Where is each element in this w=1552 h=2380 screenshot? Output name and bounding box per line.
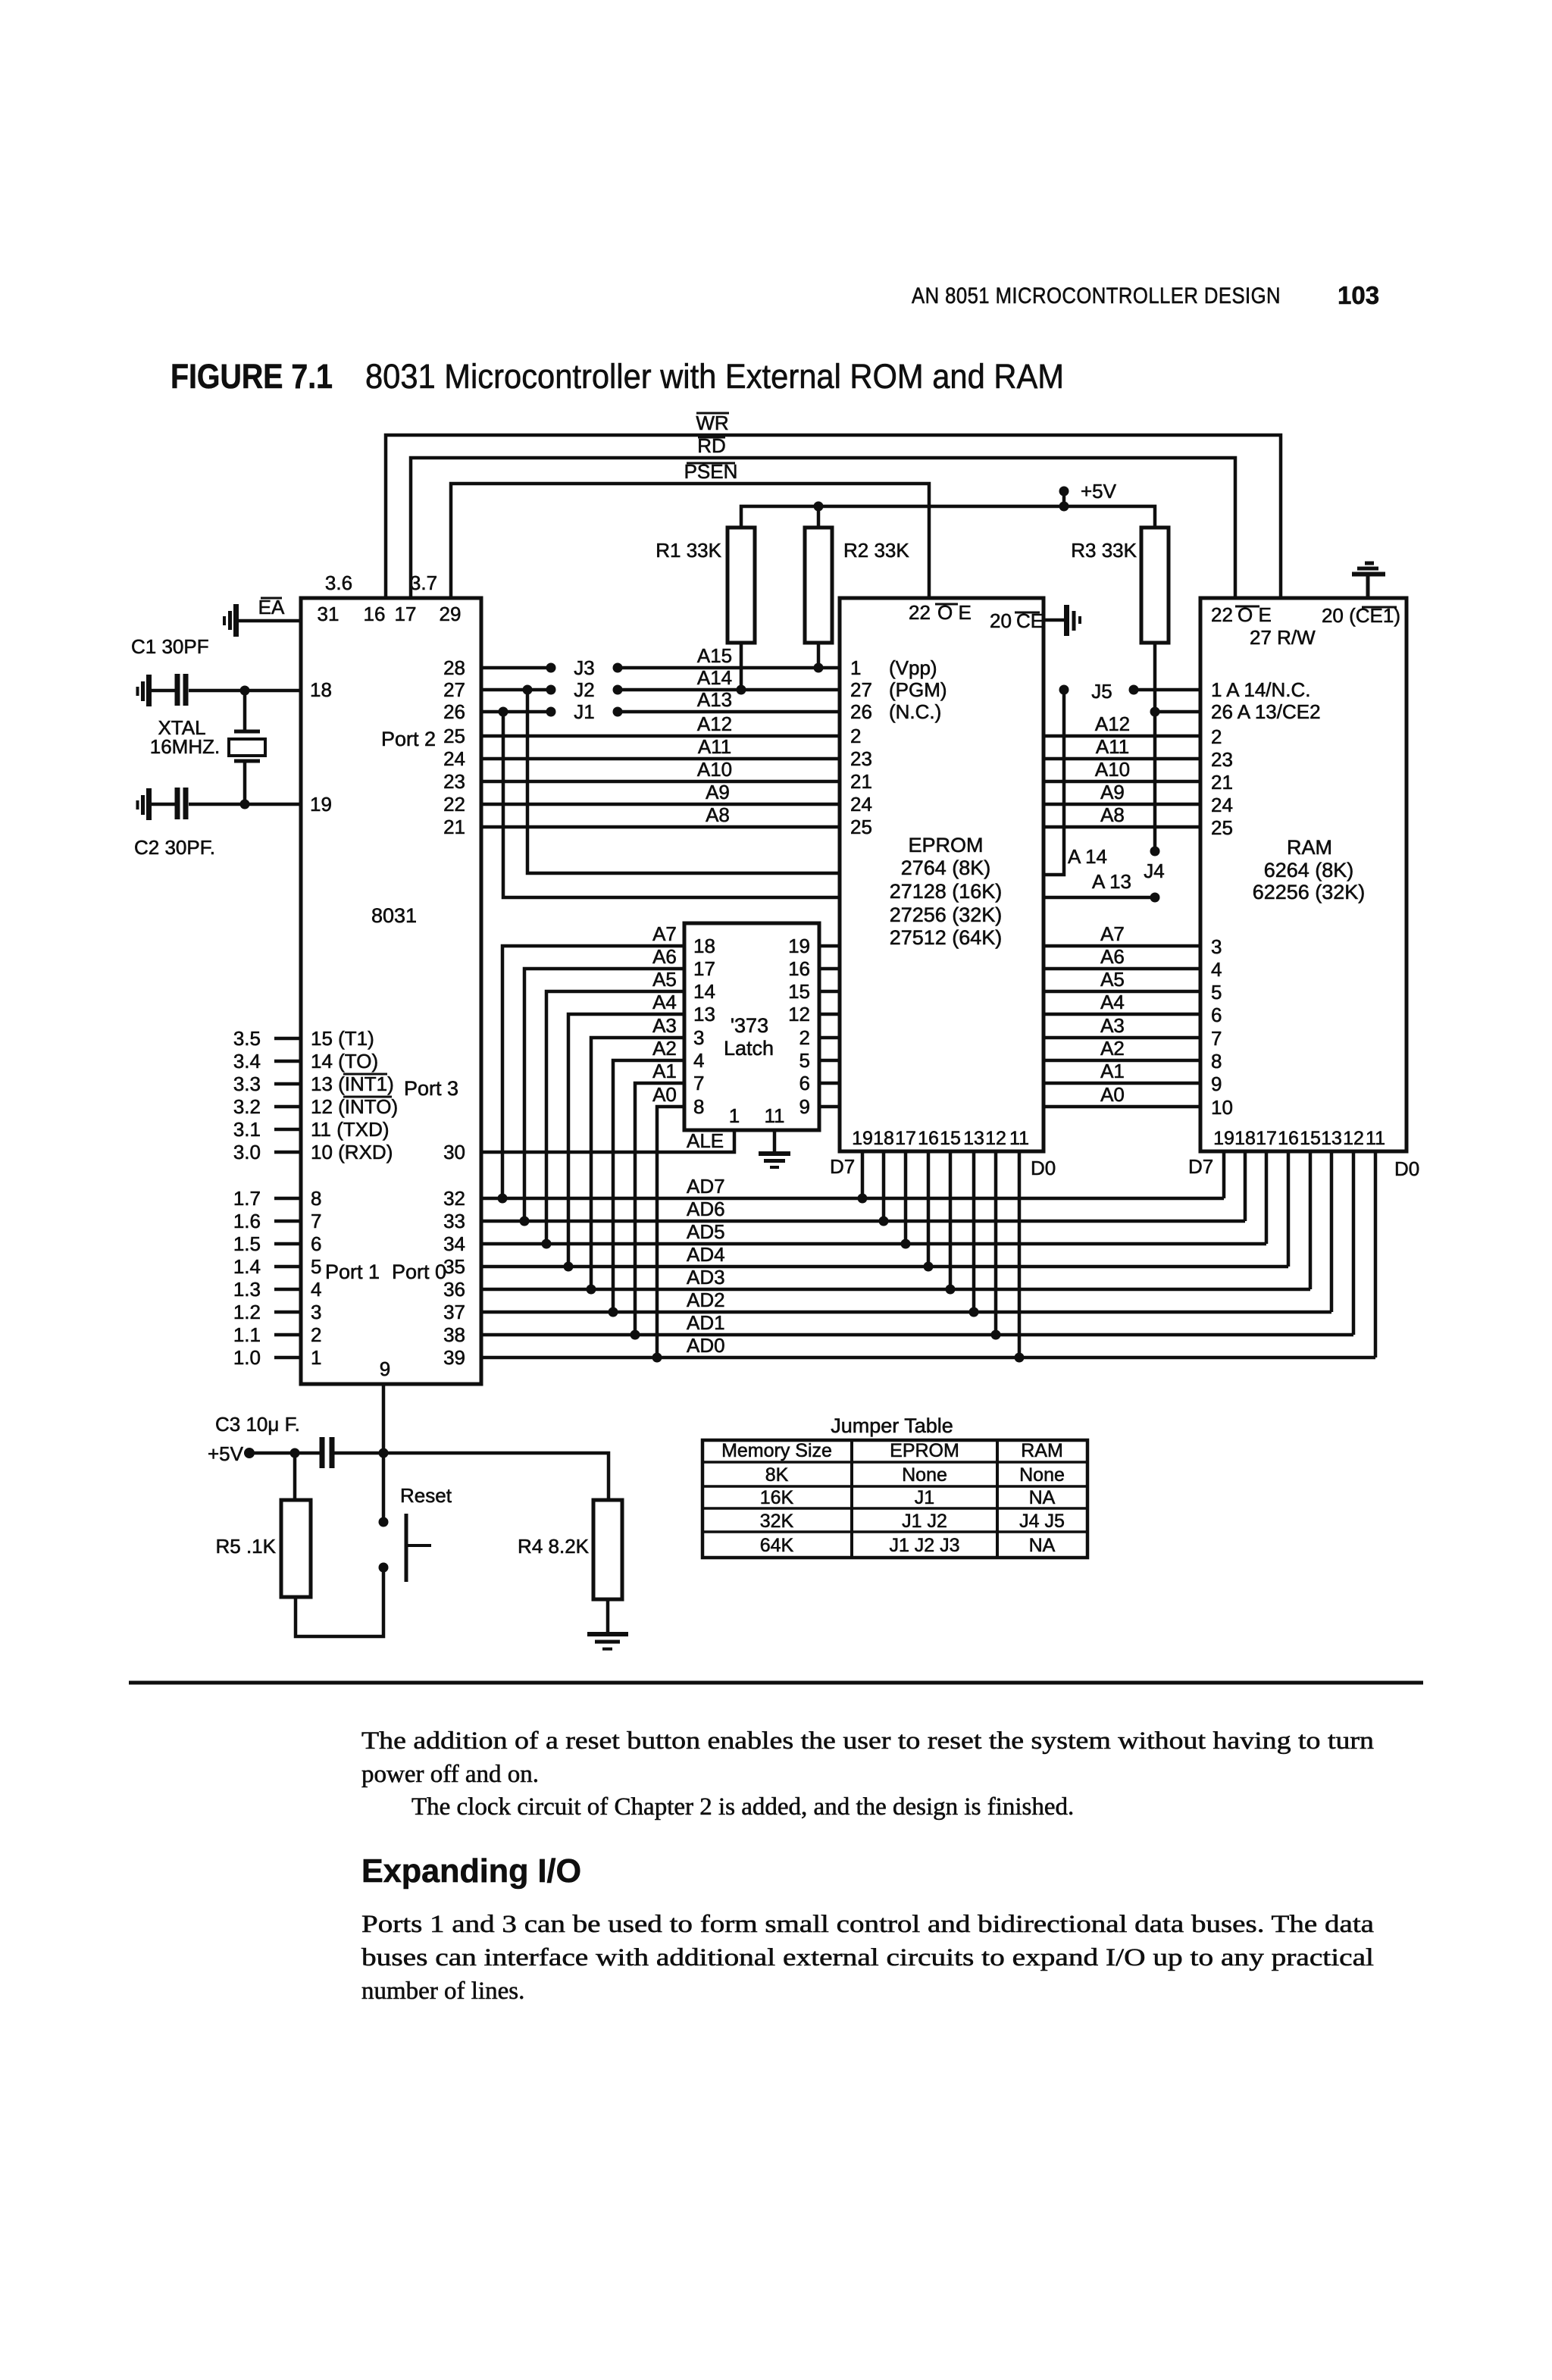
- svg-text:NA: NA: [1029, 1535, 1056, 1556]
- svg-text:25: 25: [850, 816, 872, 838]
- 8031 pin18 pin19 labels: [310, 678, 332, 816]
- wire AD3 bus line: [481, 1266, 1310, 1289]
- svg-text:D0: D0: [1031, 1157, 1056, 1179]
- wire latch input A6 to AD bus: [520, 945, 685, 1226]
- svg-text:Port 1: Port 1: [325, 1260, 380, 1283]
- svg-text:9: 9: [380, 1358, 390, 1380]
- EPROM bottom pin numbers: [852, 1128, 1029, 1149]
- wire latch input A5 to AD bus: [542, 968, 685, 1249]
- wire latch input A7 to AD bus: [498, 922, 685, 1204]
- wire RAM data pin 17 to AD bus: [1265, 1151, 1269, 1244]
- svg-text:26: 26: [443, 700, 465, 723]
- svg-text:35: 35: [443, 1255, 465, 1278]
- wire port3 pin stub 3.2: [233, 1095, 398, 1118]
- svg-text:39: 39: [443, 1346, 465, 1369]
- svg-text:22: 22: [909, 601, 931, 624]
- svg-text:23: 23: [1211, 748, 1233, 771]
- wire A12 row EPROM to RAM: [1044, 712, 1200, 736]
- svg-text:3.3: 3.3: [233, 1073, 261, 1095]
- capacitor C2 30PF: [134, 788, 215, 859]
- EPROM pin 22 OE label: [909, 601, 972, 624]
- svg-text:(Vpp): (Vpp): [889, 656, 937, 679]
- svg-text:AN 8051 MICROCONTROLLER DESIGN: AN 8051 MICROCONTROLLER DESIGN: [912, 283, 1281, 308]
- wire A8 row EPROM to RAM: [1044, 803, 1200, 827]
- ground symbol at RAM CE1: [1352, 563, 1385, 598]
- wire ALE net: [481, 1129, 734, 1152]
- svg-text:6264 (8K): 6264 (8K): [1264, 859, 1354, 882]
- svg-text:8K: 8K: [765, 1464, 789, 1486]
- svg-text:17: 17: [895, 1128, 916, 1149]
- svg-text:A0: A0: [652, 1083, 677, 1106]
- wire A12 row 8031 to EPROM: [481, 734, 840, 738]
- svg-text:11: 11: [1366, 1128, 1385, 1149]
- svg-text:Ports 1 and 3 can be used to f: Ports 1 and 3 can be used to form small …: [361, 1911, 1374, 1938]
- svg-text:8031: 8031: [371, 904, 417, 927]
- svg-text:21: 21: [1211, 771, 1233, 794]
- svg-text:5: 5: [311, 1255, 321, 1278]
- svg-text:64K: 64K: [760, 1535, 794, 1556]
- svg-text:26 A 13/CE2: 26 A 13/CE2: [1211, 700, 1321, 723]
- svg-text:1: 1: [850, 656, 861, 679]
- ground symbol at C1: [138, 675, 149, 706]
- svg-text:3.7: 3.7: [410, 572, 437, 594]
- crystal XTAL 16MHZ: [150, 691, 265, 804]
- svg-text:7: 7: [311, 1210, 321, 1232]
- node +5V: [1059, 480, 1117, 512]
- svg-text:Jumper Table: Jumper Table: [831, 1414, 953, 1437]
- svg-text:NA: NA: [1029, 1487, 1056, 1508]
- svg-text:A 14: A 14: [1068, 845, 1107, 868]
- svg-text:AD6: AD6: [687, 1198, 725, 1220]
- svg-text:15: 15: [940, 1128, 961, 1149]
- wire C1 to 8031 pin18: [189, 686, 301, 696]
- svg-text:18: 18: [873, 1128, 894, 1149]
- svg-text:AD5: AD5: [687, 1220, 725, 1243]
- svg-text:10 (RXD): 10 (RXD): [311, 1141, 393, 1163]
- wire A10 row EPROM to RAM: [1044, 758, 1200, 781]
- wire latch input A1 to AD bus: [630, 1060, 685, 1340]
- wire WR net (8031 pin16 to RAM R/W): [386, 412, 1281, 598]
- wire +5V pullup rail: [741, 502, 1155, 528]
- page header: [912, 281, 1379, 309]
- svg-text:38: 38: [443, 1323, 465, 1346]
- wire A15 row with jumper J3: [481, 656, 840, 679]
- svg-text:7: 7: [1211, 1027, 1222, 1050]
- svg-text:23: 23: [850, 747, 872, 770]
- wire EA to 8031: [239, 619, 301, 623]
- capacitor C1 30PF: [131, 635, 209, 706]
- wire A14 row with jumper J2: [481, 678, 840, 701]
- svg-text:None: None: [1019, 1464, 1065, 1486]
- svg-text:25: 25: [1211, 816, 1233, 839]
- svg-text:3.2: 3.2: [233, 1095, 261, 1118]
- svg-text:12: 12: [1343, 1128, 1364, 1149]
- svg-text:18: 18: [693, 935, 715, 957]
- ground symbol at R4: [587, 1634, 628, 1649]
- svg-text:14 (TO): 14 (TO): [311, 1050, 378, 1073]
- horizontal rule: [129, 1681, 1423, 1685]
- 8031 internal labels: [325, 728, 458, 1283]
- wire latch output stub: [819, 1013, 840, 1016]
- svg-text:27512 (64K): 27512 (64K): [890, 926, 1003, 949]
- ground symbol at latch pin11: [759, 1130, 790, 1167]
- svg-text:17: 17: [395, 603, 417, 625]
- svg-text:+5V: +5V: [208, 1442, 244, 1465]
- svg-text:A15: A15: [697, 644, 732, 667]
- svg-text:A6: A6: [652, 945, 677, 968]
- svg-text:AD3: AD3: [687, 1266, 725, 1289]
- wire R4 to ground: [606, 1599, 610, 1633]
- svg-text:A12: A12: [697, 712, 732, 735]
- heading Expanding I/O: [361, 1852, 581, 1890]
- address labels A15-A8: [697, 644, 732, 826]
- wire A8 row 8031 to EPROM: [481, 825, 840, 829]
- svg-text:12 (INTO): 12 (INTO): [311, 1095, 398, 1118]
- svg-text:A9: A9: [1100, 781, 1125, 803]
- wire R5 bottom to switch: [296, 1567, 383, 1636]
- svg-text:J3: J3: [574, 656, 594, 679]
- wire latch input A0 to AD bus: [652, 1083, 685, 1363]
- wire EPROM data pin 16 to AD bus: [924, 1151, 934, 1272]
- body paragraph 2: [361, 1911, 1374, 2005]
- wire A6 row EPROM to RAM: [1044, 945, 1200, 969]
- wire latch output stub: [819, 967, 840, 971]
- wire EPROM data pin 15 to AD bus: [946, 1151, 956, 1295]
- svg-text:26: 26: [850, 700, 872, 723]
- wire RAM data pin 19 to AD bus: [1222, 1151, 1226, 1198]
- wire A3 row EPROM to RAM: [1044, 1014, 1200, 1038]
- svg-text:J1: J1: [574, 700, 594, 723]
- svg-text:A8: A8: [706, 803, 730, 826]
- node D7 label RAM: [1188, 1155, 1213, 1178]
- svg-text:A0: A0: [1100, 1083, 1125, 1106]
- wire AD4 bus line: [481, 1243, 1288, 1267]
- svg-text:2: 2: [850, 725, 861, 747]
- svg-text:R2 33K: R2 33K: [843, 539, 909, 562]
- wire latch output stub: [819, 944, 840, 948]
- svg-text:Latch: Latch: [724, 1037, 774, 1060]
- wire port1 pin stub 1.6: [233, 1210, 322, 1232]
- svg-text:Memory Size: Memory Size: [721, 1440, 832, 1461]
- wire C3 to R4: [334, 1453, 609, 1500]
- svg-text:27256 (32K): 27256 (32K): [890, 903, 1003, 926]
- wire PSEN net (8031 pin29 to EPROM OE): [451, 460, 929, 598]
- svg-text:D7: D7: [830, 1155, 855, 1178]
- wire A13 row with jumper J1: [481, 700, 840, 723]
- resistor R4 8.2K: [518, 1500, 622, 1599]
- latch pin numbers: [693, 935, 810, 1127]
- svg-text:27128 (16K): 27128 (16K): [890, 880, 1003, 903]
- svg-text:3.0: 3.0: [233, 1141, 261, 1163]
- svg-text:24: 24: [443, 747, 465, 770]
- svg-text:12: 12: [788, 1003, 810, 1026]
- svg-text:A11: A11: [1096, 735, 1129, 758]
- svg-text:4: 4: [693, 1049, 704, 1072]
- svg-text:1.7: 1.7: [233, 1187, 261, 1210]
- svg-text:1.0: 1.0: [233, 1346, 261, 1369]
- wire A5 row EPROM to RAM: [1044, 968, 1200, 991]
- svg-text:EPROM: EPROM: [908, 834, 983, 856]
- wire port1 pin stub 1.5: [233, 1232, 322, 1255]
- svg-text:24: 24: [1211, 794, 1233, 816]
- svg-text:18: 18: [1234, 1128, 1256, 1149]
- svg-text:16: 16: [364, 603, 386, 625]
- svg-text:A13: A13: [697, 688, 732, 711]
- ground symbol at EA: [224, 604, 236, 637]
- svg-text:17: 17: [693, 957, 715, 980]
- svg-text:A10: A10: [697, 758, 732, 781]
- wire port1 pin stub 1.0: [233, 1346, 322, 1369]
- jumper J5 to RAM pin1: [1091, 680, 1200, 703]
- svg-text:4: 4: [311, 1278, 321, 1301]
- wire latch input A3 to AD bus: [587, 1014, 685, 1295]
- svg-text:AD1: AD1: [687, 1311, 725, 1334]
- wire RD net (8031 pin17 to RAM OE): [411, 434, 1235, 598]
- wire latch input A4 to AD bus: [564, 991, 685, 1272]
- svg-text:10: 10: [1211, 1096, 1233, 1119]
- svg-text:36: 36: [443, 1278, 465, 1301]
- svg-text:'373: '373: [731, 1014, 768, 1037]
- node D0 label EPROM: [1031, 1157, 1056, 1179]
- svg-text:16MHZ.: 16MHZ.: [150, 735, 220, 758]
- wire EPROM data pin 13 to AD bus: [969, 1151, 979, 1317]
- wire RAM data pin 18 to AD bus: [1244, 1151, 1247, 1221]
- svg-text:A1: A1: [1100, 1060, 1125, 1082]
- latch U4 '373: [684, 923, 819, 1130]
- microcontroller U1 8031: [301, 598, 481, 1384]
- svg-text:A9: A9: [706, 781, 730, 803]
- wire A4 row EPROM to RAM: [1044, 991, 1200, 1014]
- svg-text:6: 6: [799, 1072, 810, 1094]
- svg-text:R1 33K: R1 33K: [656, 539, 721, 562]
- svg-text:3.5: 3.5: [233, 1027, 261, 1050]
- ground symbol at C2: [138, 788, 149, 820]
- EPROM internal labels: [890, 834, 1003, 949]
- svg-text:8031 Microcontroller with Exte: 8031 Microcontroller with External ROM a…: [365, 357, 1064, 396]
- EPROM pin 20 CE label: [990, 609, 1044, 632]
- svg-text:3.6: 3.6: [325, 572, 352, 594]
- RAM left pin numbers: [1211, 678, 1321, 1119]
- wire RAM data pin 11 to AD bus: [1374, 1151, 1378, 1358]
- EPROM U2: [840, 598, 1044, 1151]
- wire AD1 bus line: [481, 1311, 1353, 1335]
- wire A1 row EPROM to RAM: [1044, 1060, 1200, 1083]
- svg-text:J1 J2: J1 J2: [902, 1511, 947, 1532]
- svg-text:A4: A4: [652, 991, 677, 1013]
- svg-text:1.5: 1.5: [233, 1232, 261, 1255]
- svg-text:A5: A5: [1100, 968, 1125, 991]
- svg-text:19: 19: [1213, 1128, 1234, 1149]
- wire port1 pin stub 1.2: [233, 1301, 322, 1323]
- svg-text:J4 J5: J4 J5: [1019, 1511, 1065, 1532]
- svg-text:34: 34: [443, 1232, 465, 1255]
- ground symbol at EPROM CE: [1067, 605, 1081, 636]
- svg-text:16: 16: [918, 1128, 939, 1149]
- svg-text:37: 37: [443, 1301, 465, 1323]
- wire port3 pin stub 3.4: [233, 1050, 378, 1073]
- wire J2 branch to EPROM A14 route: [527, 690, 840, 873]
- svg-text:A3: A3: [652, 1014, 677, 1037]
- svg-text:J1: J1: [915, 1487, 934, 1508]
- svg-text:9: 9: [799, 1095, 810, 1118]
- svg-text:19: 19: [852, 1128, 873, 1149]
- svg-text:27: 27: [443, 678, 465, 701]
- wire port3 pin stub 3.0: [233, 1141, 393, 1163]
- svg-text:WR: WR: [696, 412, 728, 434]
- wire EPROM data pin 19 to AD bus: [858, 1151, 868, 1204]
- wire port1 pin stub 1.1: [233, 1323, 322, 1346]
- svg-text:AD4: AD4: [687, 1243, 725, 1266]
- wire AD6 bus line: [481, 1198, 1245, 1221]
- node D7 label EPROM: [830, 1155, 855, 1178]
- svg-text:19: 19: [788, 935, 810, 957]
- wire latch output stub: [819, 990, 840, 994]
- node +5V reset: [208, 1442, 321, 1465]
- svg-text:A14: A14: [697, 666, 732, 689]
- svg-text:4: 4: [1211, 958, 1222, 981]
- svg-text:The addition of a reset button: The addition of a reset button enables t…: [361, 1727, 1374, 1755]
- svg-text:21: 21: [443, 816, 465, 838]
- resistor R1 33K: [656, 528, 755, 695]
- jumper table: [702, 1414, 1087, 1558]
- svg-text:AD7: AD7: [687, 1175, 725, 1198]
- RAM bottom pin numbers: [1213, 1128, 1385, 1149]
- svg-text:1.6: 1.6: [233, 1210, 261, 1232]
- wire A11 row 8031 to EPROM: [481, 757, 840, 761]
- svg-text:3.4: 3.4: [233, 1050, 261, 1073]
- svg-text:13: 13: [963, 1128, 984, 1149]
- svg-text:J2: J2: [574, 678, 594, 701]
- svg-text:22: 22: [443, 793, 465, 816]
- svg-text:A11: A11: [698, 735, 731, 758]
- RAM internal labels: [1253, 836, 1366, 903]
- wire A14 route EPROM to jumper J5: [1044, 685, 1107, 875]
- svg-text:13 (INT1): 13 (INT1): [311, 1073, 394, 1095]
- wire port3 pin stub 3.5: [233, 1027, 374, 1050]
- wire A13 route EPROM to jumper J4: [1044, 870, 1160, 903]
- svg-text:8: 8: [311, 1187, 321, 1210]
- svg-text:A10: A10: [1095, 758, 1130, 781]
- wire RAM data pin 12 to AD bus: [1352, 1151, 1356, 1335]
- switch SW reset: [379, 1484, 452, 1582]
- wire RAM data pin 13 to AD bus: [1330, 1151, 1334, 1312]
- wire AD2 bus line: [481, 1289, 1331, 1312]
- svg-text:AD2: AD2: [687, 1289, 725, 1311]
- svg-text:16K: 16K: [760, 1487, 794, 1508]
- svg-text:1: 1: [729, 1104, 740, 1127]
- resistor R3 33K: [1071, 528, 1169, 851]
- svg-text:3: 3: [1211, 935, 1222, 958]
- svg-text:14: 14: [693, 980, 715, 1003]
- svg-text:A8: A8: [1100, 803, 1125, 826]
- svg-text:5: 5: [1211, 981, 1222, 1004]
- svg-text:13: 13: [1321, 1128, 1342, 1149]
- svg-text:8: 8: [1211, 1050, 1222, 1073]
- wire EPROM data pin 18 to AD bus: [879, 1151, 889, 1226]
- svg-text:13: 13: [693, 1003, 715, 1026]
- resistor R2 33K: [805, 528, 909, 673]
- svg-text:RAM: RAM: [1287, 836, 1332, 859]
- svg-text:(PGM): (PGM): [889, 678, 947, 701]
- wire latch output stub: [819, 1105, 840, 1109]
- svg-text:1 A 14/N.C.: 1 A 14/N.C.: [1211, 678, 1311, 701]
- EPROM left pin numbers: [850, 656, 947, 838]
- svg-text:31: 31: [318, 603, 339, 625]
- wire AD0 bus line: [481, 1334, 1375, 1358]
- wire EPROM data pin 17 to AD bus: [901, 1151, 911, 1249]
- svg-text:32: 32: [443, 1187, 465, 1210]
- jumper J4: [1144, 847, 1164, 883]
- svg-text:Port 3: Port 3: [404, 1077, 458, 1100]
- 8031 right pin numbers: [380, 656, 465, 1380]
- wire port1 pin stub 1.7: [233, 1187, 322, 1210]
- svg-text:A2: A2: [652, 1037, 677, 1060]
- svg-text:2: 2: [311, 1323, 321, 1346]
- svg-text:(N.C.): (N.C.): [889, 700, 941, 723]
- node D0 label RAM: [1394, 1157, 1419, 1180]
- resistor R5 1K: [216, 1453, 311, 1597]
- svg-text:62256 (32K): 62256 (32K): [1253, 881, 1366, 903]
- svg-text:16: 16: [1278, 1128, 1299, 1149]
- RAM pin 22 OE label: [1211, 603, 1272, 626]
- wire latch output stub: [819, 1036, 840, 1040]
- RAM U3: [1200, 598, 1406, 1151]
- svg-text:24: 24: [850, 793, 872, 816]
- svg-text:9: 9: [1211, 1073, 1222, 1095]
- svg-text:8: 8: [693, 1095, 704, 1118]
- figure title: [171, 357, 1064, 396]
- wire C2 to 8031 pin19: [189, 800, 301, 810]
- svg-text:19: 19: [310, 793, 332, 816]
- wire A2 row EPROM to RAM: [1044, 1037, 1200, 1060]
- svg-text:1.3: 1.3: [233, 1278, 261, 1301]
- svg-text:ALE: ALE: [687, 1129, 724, 1152]
- svg-text:15 (T1): 15 (T1): [311, 1027, 374, 1050]
- svg-text:J4: J4: [1144, 860, 1164, 882]
- wire A10 row 8031 to EPROM: [481, 780, 840, 784]
- svg-text:5: 5: [799, 1049, 810, 1072]
- svg-text:Port 2: Port 2: [381, 728, 436, 750]
- svg-text:A4: A4: [1100, 991, 1125, 1013]
- svg-text:J1 J2 J3: J1 J2 J3: [889, 1535, 959, 1556]
- svg-text:Port 0: Port 0: [392, 1260, 446, 1283]
- wire port1 pin stub 1.3: [233, 1278, 322, 1301]
- svg-text:R3 33K: R3 33K: [1071, 539, 1137, 562]
- svg-text:6: 6: [1211, 1004, 1222, 1026]
- svg-text:7: 7: [693, 1072, 704, 1094]
- svg-text:11 (TXD): 11 (TXD): [311, 1118, 390, 1141]
- svg-text:A3: A3: [1100, 1014, 1125, 1037]
- svg-text:15: 15: [1300, 1128, 1321, 1149]
- capacitor C3 10uF: [215, 1413, 332, 1468]
- svg-text:A6: A6: [1100, 945, 1125, 968]
- svg-text:21: 21: [850, 770, 872, 793]
- wire AD5 bus line: [481, 1220, 1266, 1244]
- 8031 top pin labels: [318, 572, 462, 625]
- wire RAM data pin 15 to AD bus: [1309, 1151, 1313, 1289]
- wire RAM pin26 row: [1155, 710, 1200, 714]
- svg-text:C1 30PF: C1 30PF: [131, 635, 209, 658]
- node EA label: [258, 596, 285, 618]
- svg-text:3.1: 3.1: [233, 1118, 261, 1141]
- svg-text:11: 11: [765, 1104, 785, 1127]
- svg-text:18: 18: [310, 678, 332, 701]
- svg-text:R5 .1K: R5 .1K: [216, 1535, 277, 1558]
- svg-text:3: 3: [693, 1026, 704, 1049]
- svg-text:A1: A1: [652, 1060, 677, 1082]
- svg-text:3: 3: [311, 1301, 321, 1323]
- svg-text:15: 15: [788, 980, 810, 1003]
